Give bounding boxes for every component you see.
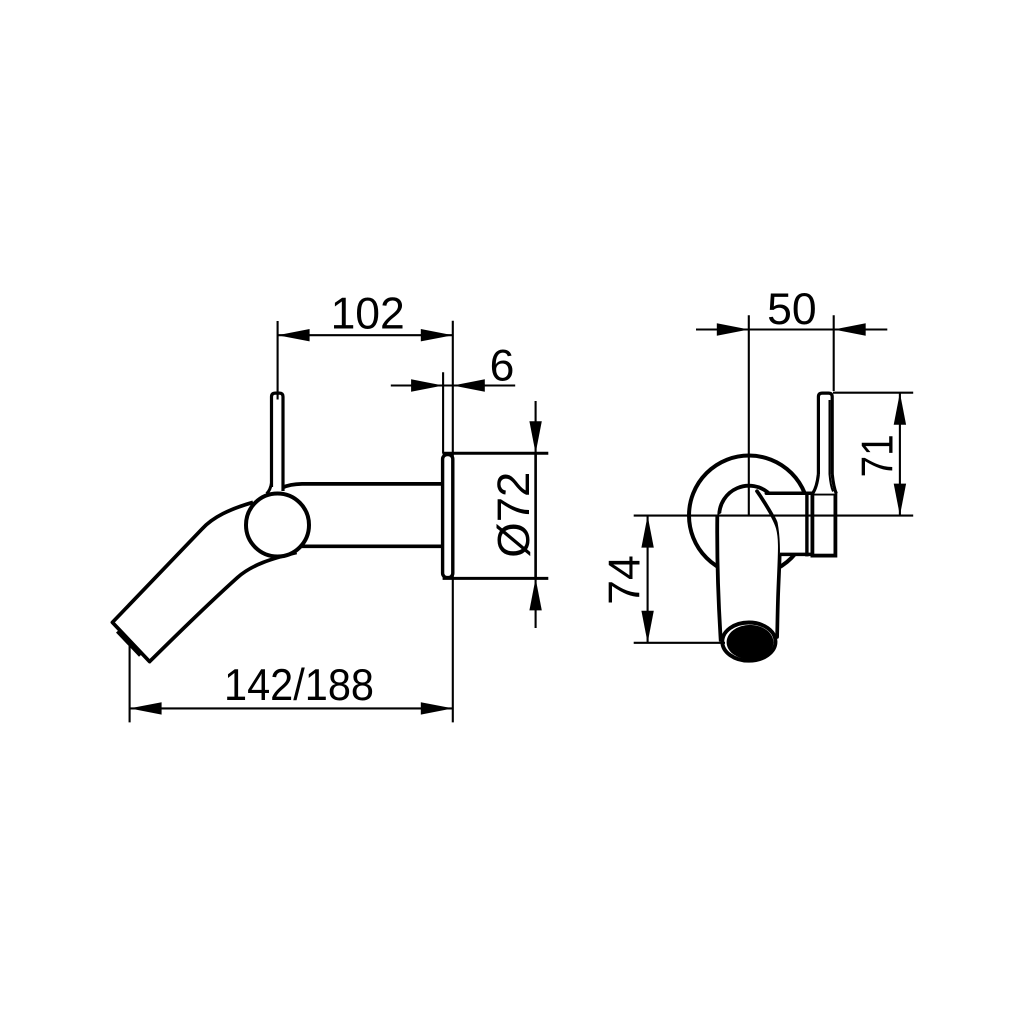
dimension 102 (top of side view): [278, 290, 453, 400]
svg-text:142/188: 142/188: [224, 661, 374, 710]
dimension 71 (right of front view, rotated): [833, 393, 913, 516]
centreline (front view horizontal axis): [634, 515, 914, 517]
body boss arc (inner circle): [719, 486, 769, 516]
svg-text:50: 50: [767, 285, 817, 334]
svg-text:74: 74: [600, 555, 649, 605]
spout outlet opening (filled black): [727, 625, 774, 660]
svg-text:71: 71: [854, 434, 903, 477]
dimension 6 (flange thickness): [391, 342, 515, 454]
wall flange circle (front view): [689, 456, 809, 576]
handle lever (front view, vertical rod with flare): [813, 393, 837, 494]
concealed body rectangle behind wall: [443, 453, 549, 578]
connector piece between boss and valve block: [766, 493, 812, 554]
handle lever (side view, vertical rod): [267, 393, 284, 494]
spout outlet outer rim (ellipse): [722, 623, 775, 661]
ball joint (side view circle): [246, 494, 309, 557]
spout tube (side view, angled down-left): [112, 502, 296, 661]
svg-text:102: 102: [331, 290, 405, 339]
dimension 50 (top of front view): [696, 285, 887, 515]
spout (front view, tube downward): [717, 491, 780, 641]
spout aerator (thick band at tip): [118, 631, 141, 655]
dimension Ø72 (flange diameter, rotated): [488, 401, 542, 628]
wall reference line (long vertical): [452, 321, 454, 723]
svg-text:Ø72: Ø72: [488, 472, 539, 558]
wall flange plate (side view, 6mm thick): [443, 455, 453, 578]
dimension 142/188 (bottom of side view): [130, 644, 453, 722]
svg-text:6: 6: [490, 342, 515, 391]
dimension 74 (left of front view, rotated): [600, 516, 725, 643]
body tube (horizontal, side view): [283, 484, 443, 546]
valve block (front view, right side): [807, 494, 836, 557]
